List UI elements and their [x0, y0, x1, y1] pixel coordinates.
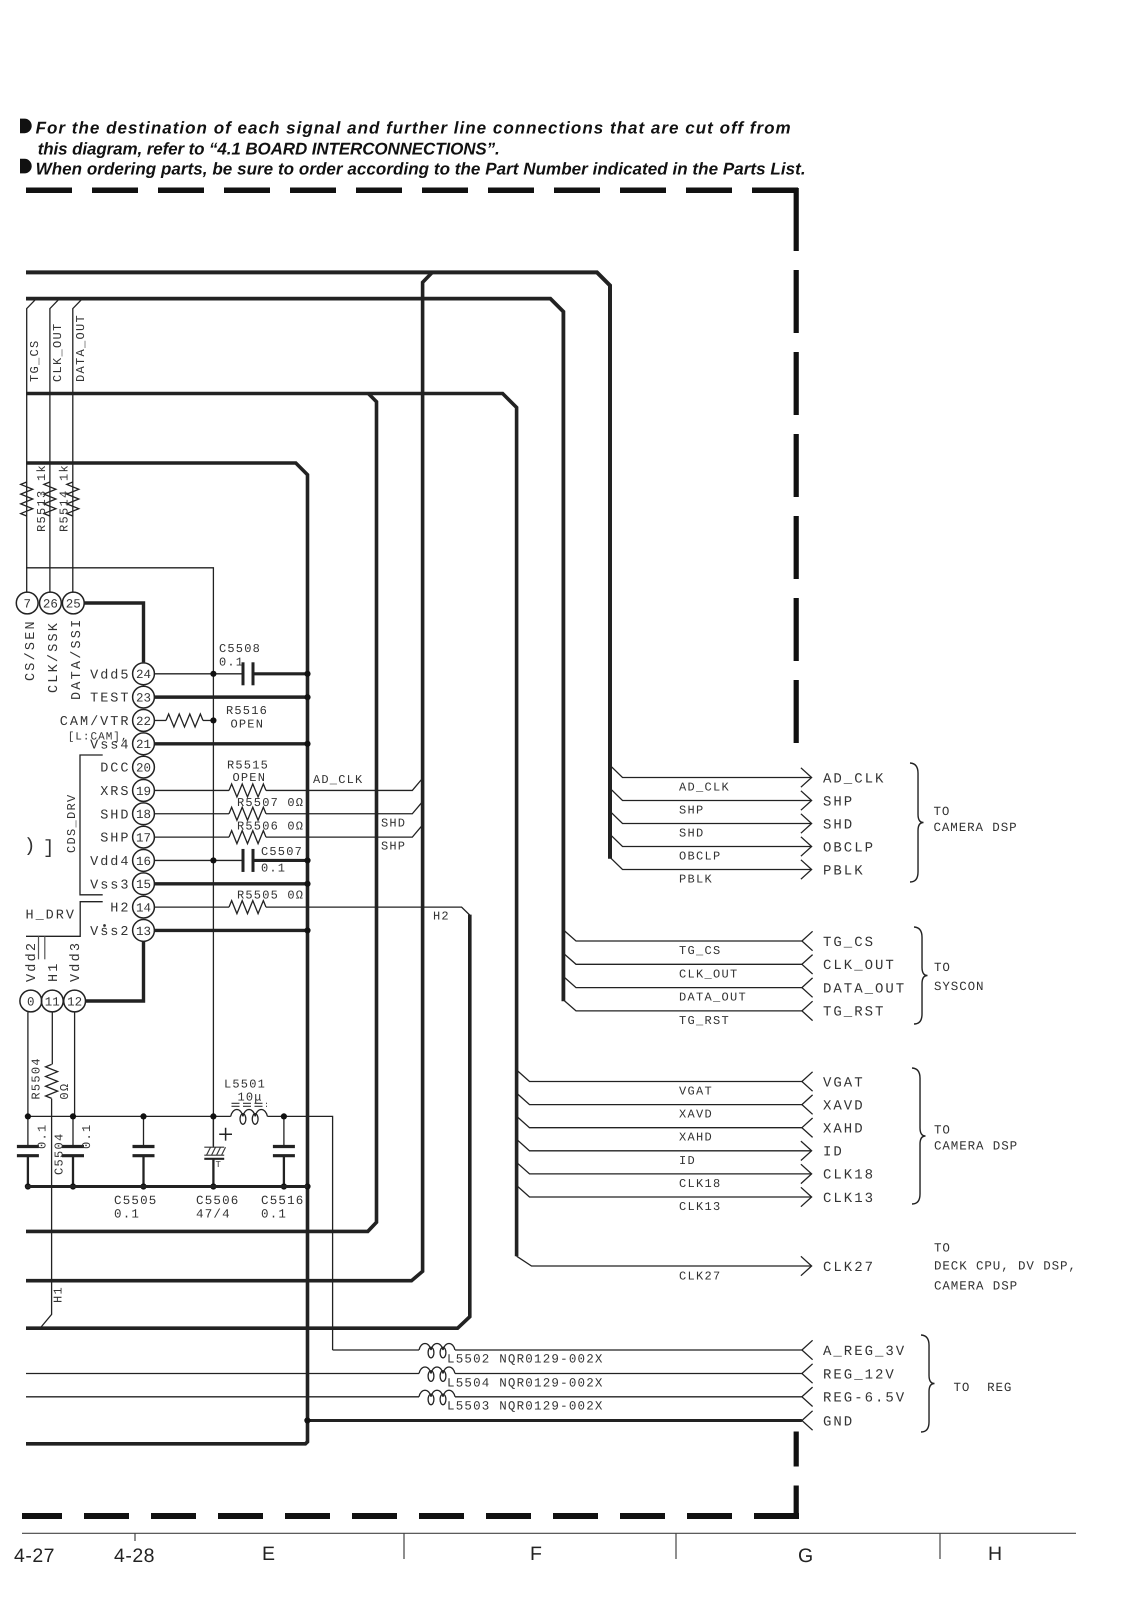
svg-text:L5501: L5501 [224, 1078, 266, 1092]
svg-text:VGAT: VGAT [823, 1075, 865, 1091]
svg-text:REG-6.5V: REG-6.5V [823, 1391, 906, 1407]
svg-text:ID: ID [823, 1145, 844, 1161]
svg-text:CLK_OUT: CLK_OUT [679, 967, 739, 981]
svg-text:For the destination of each si: For the destination of each signal and f… [36, 119, 791, 138]
svg-text:4-28: 4-28 [114, 1545, 155, 1567]
svg-text:Vss2: Vss2 [90, 925, 130, 940]
svg-text:E: E [262, 1543, 276, 1565]
svg-text:0.1: 0.1 [219, 656, 244, 670]
svg-text:CLK27: CLK27 [679, 1270, 722, 1284]
svg-text:ID: ID [679, 1154, 696, 1168]
svg-text:T: T [216, 1160, 222, 1170]
svg-text:0.1: 0.1 [261, 1208, 287, 1222]
svg-text:0: 0 [27, 995, 35, 1009]
svg-text:L5502 NQR0129-002X: L5502 NQR0129-002X [447, 1353, 604, 1367]
svg-text:18: 18 [136, 808, 151, 822]
svg-text:DATA_OUT: DATA_OUT [679, 991, 747, 1005]
svg-text:VGAT: VGAT [679, 1085, 713, 1099]
svg-text:H1: H1 [52, 1286, 66, 1303]
svg-text:CLK/SSK: CLK/SSK [47, 621, 62, 693]
svg-text:OBCLP: OBCLP [679, 850, 722, 864]
svg-text:C5508: C5508 [219, 642, 261, 656]
svg-text:4-27: 4-27 [14, 1545, 55, 1567]
svg-text:CAMERA DSP: CAMERA DSP [934, 821, 1018, 835]
svg-text:DATA_OUT: DATA_OUT [74, 314, 88, 382]
svg-text:L5503 NQR0129-002X: L5503 NQR0129-002X [447, 1400, 604, 1414]
svg-text:Vdd5: Vdd5 [90, 668, 130, 683]
svg-text:Vdd4: Vdd4 [90, 855, 130, 870]
svg-text:DATA/SSI: DATA/SSI [70, 618, 85, 700]
svg-text:H1: H1 [47, 961, 62, 982]
svg-text:OBCLP: OBCLP [823, 840, 875, 856]
svg-text:REG_12V: REG_12V [823, 1367, 896, 1383]
svg-text:TO: TO [934, 961, 951, 975]
svg-text:C5506: C5506 [196, 1194, 240, 1208]
svg-text:TG_CS: TG_CS [28, 339, 42, 382]
svg-text:Vdd3: Vdd3 [69, 941, 84, 982]
svg-text:15: 15 [136, 878, 151, 892]
svg-text:R5505 0Ω: R5505 0Ω [237, 889, 304, 903]
svg-text:SHP: SHP [381, 840, 406, 854]
svg-text:R5506 0Ω: R5506 0Ω [237, 820, 304, 834]
svg-text:CLK_OUT: CLK_OUT [51, 322, 65, 382]
svg-text:CLK_OUT: CLK_OUT [823, 958, 896, 974]
svg-text:GND: GND [823, 1414, 854, 1430]
svg-text:TG_RST: TG_RST [679, 1014, 730, 1028]
svg-text:TO: TO [934, 1242, 951, 1256]
svg-text:A_REG_3V: A_REG_3V [823, 1344, 906, 1360]
svg-text:H2: H2 [110, 902, 130, 917]
svg-text:L5504 NQR0129-002X: L5504 NQR0129-002X [447, 1377, 604, 1391]
svg-text:When ordering parts, be sure t: When ordering parts, be sure to order ac… [36, 160, 806, 179]
svg-text:14: 14 [136, 902, 151, 916]
svg-text:H2: H2 [433, 910, 450, 924]
svg-text:21: 21 [136, 738, 151, 752]
svg-text:PBLK: PBLK [823, 863, 865, 879]
svg-text:13: 13 [136, 925, 151, 939]
svg-text:10μ: 10μ [238, 1091, 263, 1105]
svg-text:SYSCON: SYSCON [934, 980, 984, 994]
svg-text:XAHD: XAHD [679, 1131, 713, 1145]
svg-text:17: 17 [136, 832, 151, 846]
svg-text:TEST: TEST [90, 692, 130, 707]
svg-text:TG_RST: TG_RST [823, 1005, 885, 1021]
svg-text:16: 16 [136, 855, 151, 869]
svg-text:19: 19 [136, 785, 151, 799]
svg-text:0.1: 0.1 [261, 862, 286, 876]
svg-text:CAM/VTR: CAM/VTR [60, 715, 131, 730]
svg-text:SHD: SHD [823, 817, 854, 833]
svg-text:C5505: C5505 [114, 1194, 158, 1208]
svg-text:0.1: 0.1 [35, 1123, 49, 1149]
svg-text:R5516: R5516 [226, 704, 268, 718]
svg-text:SHP: SHP [679, 804, 705, 818]
svg-text:20: 20 [136, 762, 151, 776]
svg-text:CLK27: CLK27 [823, 1260, 875, 1276]
svg-text:C5504: C5504 [53, 1132, 67, 1175]
svg-text:12: 12 [67, 995, 82, 1009]
svg-text:OPEN: OPEN [231, 718, 265, 732]
svg-text:C5507: C5507 [261, 845, 303, 859]
svg-text:SHP: SHP [823, 794, 854, 810]
svg-text:TO: TO [934, 1124, 951, 1138]
svg-text:F: F [530, 1543, 542, 1565]
svg-text:47/4: 47/4 [196, 1208, 231, 1222]
svg-text:G: G [798, 1545, 814, 1567]
svg-text:AD_CLK: AD_CLK [823, 771, 885, 787]
svg-text:Vss3: Vss3 [90, 878, 130, 893]
svg-text:CAMERA DSP: CAMERA DSP [934, 1140, 1018, 1154]
svg-text:SHD: SHD [679, 827, 705, 841]
svg-text:AD_CLK: AD_CLK [679, 781, 730, 795]
svg-text:TO: TO [934, 805, 951, 819]
svg-text:H: H [988, 1543, 1003, 1565]
svg-text:AD_CLK: AD_CLK [313, 773, 363, 787]
svg-text:XAVD: XAVD [679, 1108, 713, 1122]
svg-text:11: 11 [45, 995, 60, 1009]
svg-text:SHD: SHD [100, 808, 130, 823]
svg-text:XAHD: XAHD [823, 1122, 865, 1138]
svg-text:DATA_OUT: DATA_OUT [823, 981, 906, 997]
svg-text:0.1: 0.1 [114, 1208, 140, 1222]
svg-text:0Ω: 0Ω [58, 1083, 72, 1100]
svg-text:CS/SEN: CS/SEN [24, 619, 39, 681]
svg-text:R5507 0Ω: R5507 0Ω [237, 796, 304, 810]
svg-text:CDS_DRV: CDS_DRV [65, 793, 79, 853]
svg-text:H_DRV: H_DRV [25, 909, 76, 924]
svg-text:TG_CS: TG_CS [679, 944, 722, 958]
svg-text:CLK18: CLK18 [823, 1168, 875, 1184]
svg-text:XAVD: XAVD [823, 1098, 865, 1114]
svg-text:24: 24 [136, 668, 151, 682]
svg-text:SHP: SHP [100, 832, 130, 847]
svg-text:): ) [24, 835, 35, 857]
svg-text:CLK18: CLK18 [679, 1177, 722, 1191]
svg-text:CAMERA DSP: CAMERA DSP [934, 1280, 1018, 1294]
svg-text:R5514 1k: R5514 1k [58, 464, 72, 532]
svg-text:PBLK: PBLK [679, 873, 713, 887]
svg-text:]: ] [43, 837, 54, 859]
svg-text:SHD: SHD [381, 817, 406, 831]
svg-text:0.1: 0.1 [80, 1123, 94, 1149]
svg-text:25: 25 [66, 597, 81, 611]
svg-text:this diagram, refer to “4.1 BO: this diagram, refer to “4.1 BOARD INTERC… [38, 140, 500, 159]
svg-text:R5513 1k: R5513 1k [35, 464, 49, 532]
svg-text:26: 26 [43, 597, 58, 611]
svg-text:7: 7 [23, 597, 31, 611]
svg-text:R5504: R5504 [29, 1057, 43, 1100]
svg-text:DECK CPU, DV DSP,: DECK CPU, DV DSP, [934, 1260, 1077, 1274]
svg-text:TO REG: TO REG [954, 1381, 1013, 1395]
svg-text:DCC: DCC [100, 762, 130, 777]
svg-text:CLK13: CLK13 [679, 1200, 722, 1214]
svg-text:CLK13: CLK13 [823, 1191, 875, 1207]
svg-text:22: 22 [136, 715, 151, 729]
svg-text:23: 23 [136, 692, 151, 706]
svg-text:OPEN: OPEN [233, 771, 267, 785]
svg-text:XRS: XRS [100, 785, 130, 800]
svg-text:TG_CS: TG_CS [823, 935, 875, 951]
svg-text:[L:CAM],: [L:CAM], [68, 732, 129, 744]
svg-text:C5516: C5516 [261, 1194, 305, 1208]
